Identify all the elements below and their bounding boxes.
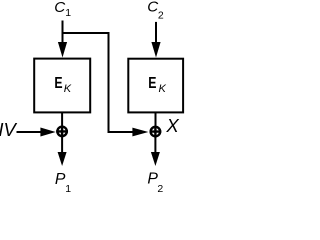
- svg-text:K: K: [64, 83, 72, 95]
- wire IV to XOR1: [17, 131, 43, 133]
- block E_K U1 (left box): [34, 59, 90, 113]
- arrowhead into right XOR: [132, 128, 148, 137]
- wire C1 to box E_K (left): [62, 21, 64, 47]
- label E_K (right): [148, 75, 166, 95]
- node C1 label: [54, 0, 71, 19]
- node P2 label: [147, 171, 163, 195]
- wire branch from C1 line to right XOR: [62, 33, 134, 132]
- wire XOR1 to P1: [61, 137, 63, 155]
- svg-text:E: E: [148, 75, 156, 92]
- node P1 label: [55, 171, 71, 195]
- arrowhead into left E_K box: [58, 42, 67, 58]
- svg-text:E: E: [54, 75, 62, 92]
- wire left box to XOR1: [61, 112, 63, 126]
- XOR1 (left circled plus): [56, 126, 68, 138]
- block E_K U2 (right box): [128, 59, 183, 113]
- wire right box to XOR2: [155, 112, 157, 126]
- arrowhead to P1: [58, 152, 67, 166]
- svg-text:1: 1: [65, 7, 71, 19]
- node C2 label: [147, 0, 164, 21]
- svg-text:2: 2: [158, 10, 164, 22]
- wire XOR2 to P2: [154, 137, 156, 154]
- wire C2 to box E_K (right): [155, 22, 157, 46]
- arrowhead to P2: [151, 152, 160, 166]
- arrowhead into right E_K box: [151, 42, 160, 58]
- svg-text:1: 1: [65, 183, 71, 192]
- label E_K (left): [54, 75, 71, 95]
- svg-text:2: 2: [157, 183, 163, 192]
- svg-text:K: K: [159, 83, 167, 95]
- XOR2 (right circled plus): [150, 126, 162, 138]
- arrowhead into XOR1: [40, 128, 55, 137]
- svg-text:X: X: [165, 115, 179, 136]
- svg-text:IV: IV: [0, 119, 18, 140]
